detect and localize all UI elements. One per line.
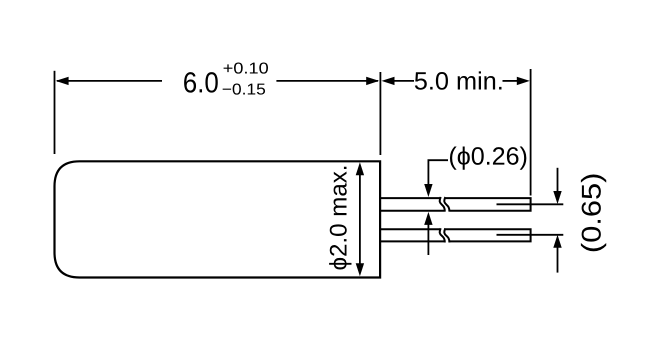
lead 1 (top) left segment with break curve — [380, 197, 445, 212]
text 6.0 — [184, 72, 218, 93]
lead 2 (bottom) left segment with break curve — [380, 228, 445, 242]
text phi 2.0 max. (rotated) — [329, 167, 351, 270]
wire: leader tail below lead 1 — [427, 224, 429, 256]
arrowhead down to lead 1 top surface — [424, 184, 432, 197]
text (0.65) (rotated) — [581, 175, 606, 252]
arrowhead up to lead 1 bottom surface — [424, 212, 432, 225]
dimension 0.65 upper arrow (down to lead 1 centerline) — [557, 168, 559, 192]
lead 1 (top) right segment with break curve and end — [444, 197, 530, 212]
arrowhead left (6.0) — [56, 77, 69, 85]
dimension double arrow phi 2.0 (vertical, inside body) — [359, 173, 361, 266]
extension line (lead end) — [530, 69, 532, 196]
extension line (body left) — [54, 71, 56, 154]
body outline (cylinder case) — [55, 161, 381, 277]
text tolerance +0.10 — [224, 62, 268, 73]
lead 2 centerline — [497, 234, 564, 236]
text tolerance -0.15 — [223, 83, 265, 94]
dimension 0.65 lower arrow (up to lead 2 centerline) — [553, 235, 561, 248]
arrowhead right (5.0) — [517, 77, 530, 85]
dimension line 5.0 right stub — [503, 80, 519, 82]
text (phi 0.26) — [450, 146, 526, 169]
dimension line 6.0 left segment — [57, 80, 162, 82]
extension line (body right edge) — [379, 72, 381, 155]
arrowhead right (6.0) — [366, 77, 379, 85]
leader line for (phi 0.26) — [428, 160, 448, 185]
lead 1 centerline — [497, 203, 564, 205]
lead 2 (bottom) right segment with break curve and end — [444, 228, 530, 242]
wire: 5.0 dim line left stub — [393, 80, 414, 82]
dimension line 5.0 left arrow — [382, 77, 395, 85]
text 5.0 min. — [415, 71, 502, 89]
dimension line 6.0 right segment — [276, 80, 378, 82]
